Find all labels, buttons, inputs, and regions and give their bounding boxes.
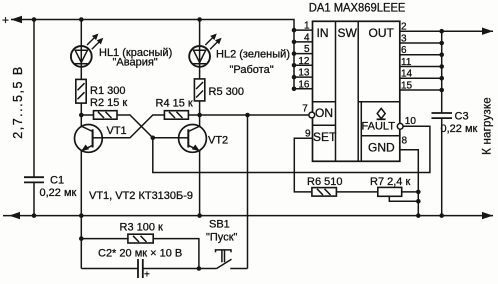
svg-text:VT1: VT1 [107, 125, 127, 137]
wire: R5 to VT2 collector node [199, 101, 201, 115]
svg-text:1: 1 [304, 21, 310, 32]
wire: C1 branch [33, 20, 35, 178]
node: bottom-left arrow [9, 212, 20, 219]
pin 7: ON input circle [309, 112, 315, 118]
svg-text:4: 4 [304, 32, 310, 43]
node: SB1 branch junction [245, 113, 250, 118]
capacitor C1 [24, 176, 44, 178]
wire: VT1 base to R4 (cross link B) [102, 115, 164, 138]
svg-text:C3: C3 [455, 111, 469, 123]
svg-text:R4 15 к: R4 15 к [156, 97, 193, 109]
wire: branch down to SB1 [247, 115, 249, 269]
wire: VT1 emitter to rail [80, 151, 82, 216]
wire: bottom RC wire [81, 268, 138, 270]
node: VT2 collector junction [197, 113, 202, 118]
capacitor C3 [432, 112, 453, 114]
svg-text:16: 16 [298, 79, 310, 90]
node: bottom-right arrow (output minus) [482, 212, 493, 219]
svg-text:"Авария": "Авария" [113, 57, 158, 69]
svg-text:13: 13 [298, 68, 310, 79]
wire: VT2 base node to FAULT (long path) [153, 126, 430, 172]
wire: GND pin 8 to rail [400, 150, 419, 216]
node: rail junction dots [32, 17, 37, 22]
wire: VT2 collector node to ON pin [200, 114, 309, 116]
svg-text:7: 7 [302, 103, 308, 114]
wire: +V top rail [11, 20, 294, 89]
svg-text:GND: GND [368, 141, 395, 155]
svg-text:VT2: VT2 [208, 135, 228, 147]
svg-text:R1 300: R1 300 [90, 85, 125, 97]
wire: VT1 emitter below rail to RC network [80, 216, 82, 269]
transistor VT1 [75, 124, 103, 152]
wire: VT1 collector down [80, 115, 82, 126]
wire: VT2 emitter to rail [199, 151, 201, 216]
pin 10: FAULT output circle [397, 123, 403, 129]
IC DA1 outline [313, 21, 400, 161]
svg-text:К нагрузке: К нагрузке [482, 97, 494, 155]
wire: R1 to VT1 collector node [80, 103, 82, 115]
svg-text:6: 6 [401, 45, 407, 56]
svg-text:R3 100 к: R3 100 к [120, 221, 164, 233]
wire: VT2 collector [199, 115, 201, 126]
svg-text:R5 300: R5 300 [209, 86, 244, 98]
svg-text:2,7...5,5 В: 2,7...5,5 В [11, 65, 25, 138]
svg-text:3: 3 [401, 34, 407, 45]
svg-text:"Пуск": "Пуск" [206, 232, 238, 244]
svg-text:14: 14 [401, 69, 413, 80]
svg-text:0,22 мк: 0,22 мк [40, 187, 77, 199]
svg-text:R2 15 к: R2 15 к [90, 97, 127, 109]
wire: output rail to load (top right arrow) [442, 30, 493, 32]
svg-text:2: 2 [401, 22, 407, 33]
svg-text:SET: SET [313, 130, 337, 144]
wire: junction to R2 [81, 114, 93, 116]
svg-text:DA1 MAX869LEEE: DA1 MAX869LEEE [309, 1, 406, 15]
wire: SET pin to R6 [294, 138, 312, 192]
svg-text:5: 5 [304, 44, 310, 55]
push-button SB1 [216, 259, 231, 269]
svg-text:10: 10 [405, 116, 417, 127]
wire: bottom common rail [3, 215, 493, 217]
wire: right bus down to C3 [441, 31, 443, 113]
svg-text:+: + [2, 13, 9, 27]
open-drain diamond above FAULT [377, 108, 385, 118]
resistor R1 [76, 79, 86, 103]
resistor R4 [164, 111, 188, 120]
resistor R3 [81, 238, 128, 240]
svg-text:15: 15 [401, 81, 413, 92]
resistor R6 [312, 188, 337, 197]
wire: LED HL1 to R1 [80, 67, 82, 80]
svg-text:OUT: OUT [369, 26, 395, 40]
svg-text:+: + [144, 270, 150, 281]
svg-text:IN: IN [317, 26, 329, 40]
wire: R4 to VT2 collector node [188, 114, 199, 116]
svg-text:11: 11 [401, 57, 412, 68]
svg-text:8: 8 [402, 136, 408, 147]
wire: R2 to VT2 base (cross link A) [117, 115, 179, 138]
svg-text:R7 2,4 к: R7 2,4 к [370, 176, 410, 188]
wire: HL2 column from rail [199, 20, 201, 47]
pins 1,4,5,12,13,16 (left bus) [294, 29, 313, 31]
resistor R7 (with tap) [378, 187, 402, 196]
LED HL2 [189, 46, 210, 67]
pins 2,3,6,11,14,15 (right bus) [400, 30, 442, 32]
svg-text:SW: SW [338, 26, 358, 40]
wire: HL2 to R5 [199, 67, 201, 79]
svg-text:0,22 мк: 0,22 мк [441, 123, 478, 135]
svg-text:SB1: SB1 [209, 219, 230, 231]
resistor R2 [94, 111, 118, 120]
svg-text:12: 12 [298, 56, 310, 67]
wire: R6 to R7 [336, 191, 377, 193]
resistor R5 [194, 79, 204, 101]
wire: HL1 column from rail [80, 20, 82, 47]
svg-text:C1: C1 [50, 175, 64, 187]
LED HL1 [71, 46, 92, 67]
svg-text:C2* 20 мк × 10 В: C2* 20 мк × 10 В [98, 248, 182, 260]
svg-text:"Работа": "Работа" [230, 64, 274, 76]
pin numbers left [298, 21, 311, 140]
node: VT2 base junction [151, 136, 156, 141]
svg-text:FAULT: FAULT [362, 121, 396, 133]
svg-text:HL2 (зеленый): HL2 (зеленый) [216, 49, 290, 61]
transistor VT2 [179, 124, 207, 152]
node: + terminal arrow [11, 16, 22, 23]
svg-text:9: 9 [305, 129, 311, 140]
pin numbers right [401, 22, 416, 147]
capacitor C2 (polarized) [137, 259, 139, 278]
svg-text:R6 510: R6 510 [307, 176, 342, 188]
svg-text:ON: ON [315, 106, 333, 120]
svg-text:VT1, VT2 КТ3130Б-9: VT1, VT2 КТ3130Б-9 [89, 190, 193, 202]
node: VT1 collector junction [79, 113, 84, 118]
